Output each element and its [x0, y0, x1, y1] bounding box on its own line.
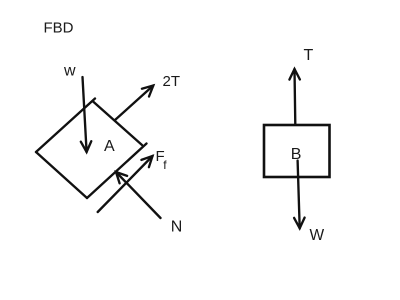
svg-text:f: f: [163, 158, 167, 172]
normal arrow N: shaft: [116, 172, 161, 218]
svg-text:w: w: [63, 63, 76, 80]
svg-text:W: W: [310, 227, 325, 244]
block A: diamond bottom-left edge: [36, 152, 87, 198]
tension arrow T: head: [289, 69, 300, 80]
friction arrow Ff: head: [141, 156, 152, 167]
weight arrow W: head: [294, 218, 305, 229]
svg-text:T: T: [304, 47, 314, 64]
svg-text:FBD: FBD: [44, 19, 74, 36]
weight arrow w: head: [81, 141, 92, 152]
tension arrow 2T: shaft: [115, 86, 153, 121]
block A: diamond bottom-right edge: [87, 144, 147, 199]
tension arrow 2T: head: [142, 86, 153, 97]
svg-text:B: B: [291, 146, 302, 163]
svg-text:2T: 2T: [163, 73, 181, 90]
normal arrow N: head: [116, 172, 127, 183]
block A: diamond top-right edge: [93, 101, 143, 145]
weight arrow w: shaft: [83, 77, 87, 152]
weight arrow W: shaft: [298, 161, 300, 229]
block A: diamond top-left edge: [36, 99, 95, 153]
svg-text:A: A: [104, 138, 115, 155]
svg-text:N: N: [171, 219, 183, 236]
tension arrow T: shaft: [293, 69, 296, 125]
friction arrow Ff: shaft: [98, 156, 153, 212]
block B: rectangle: [264, 125, 330, 177]
